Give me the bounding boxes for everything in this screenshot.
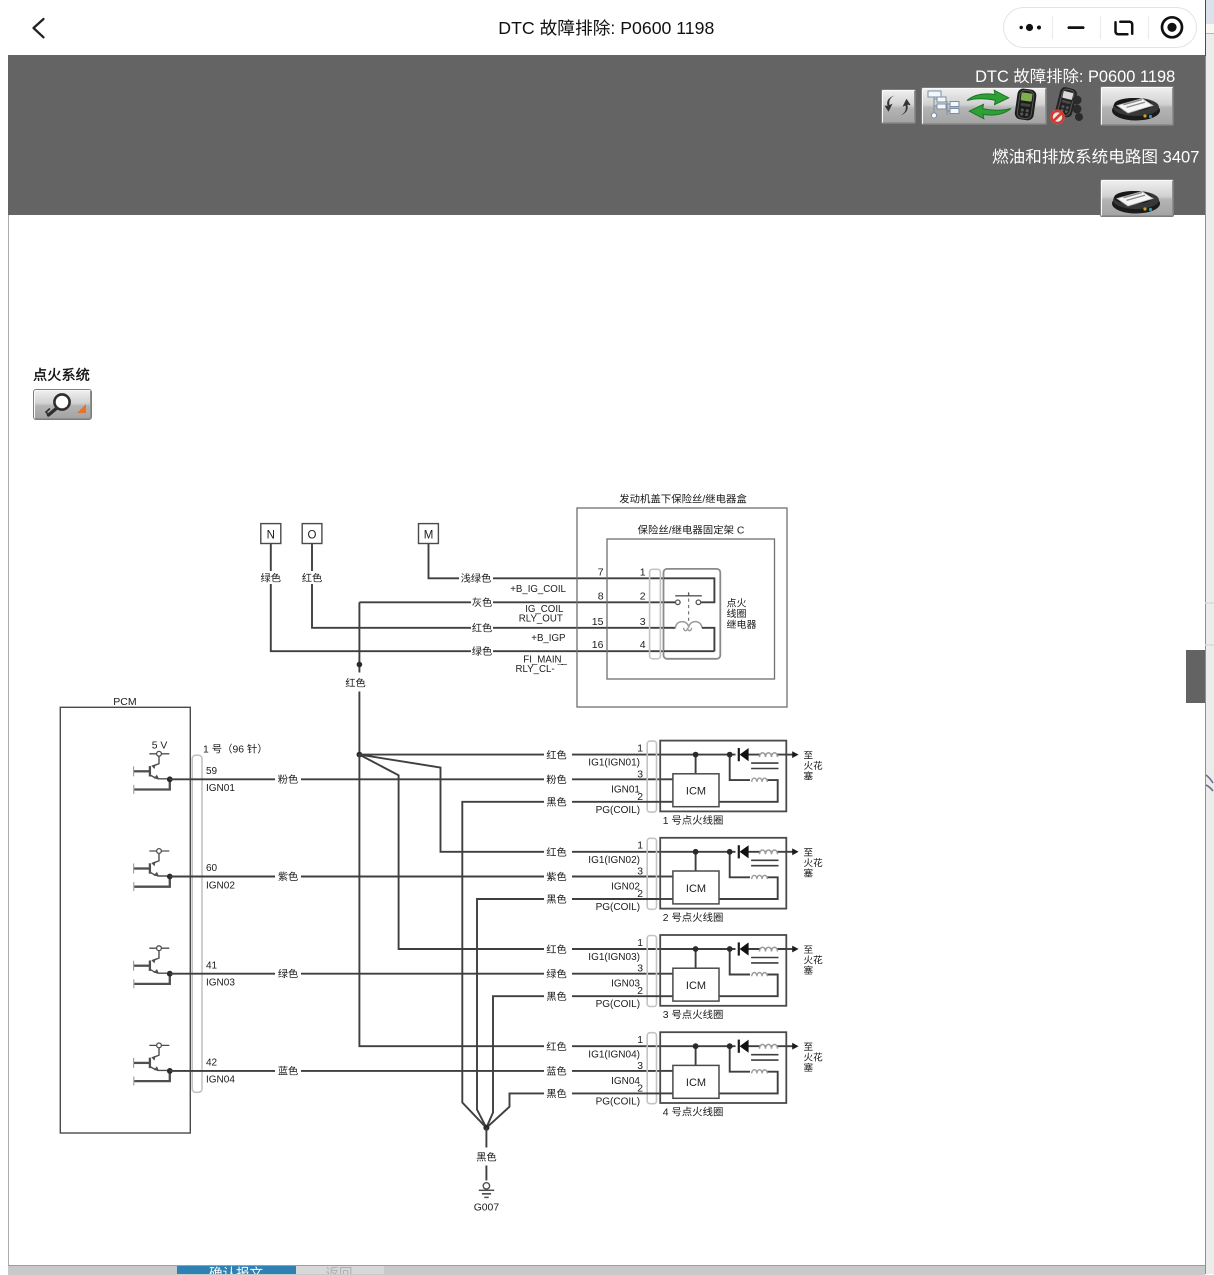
svg-text:IGN01: IGN01 — [611, 784, 640, 795]
svg-text:15: 15 — [592, 616, 604, 628]
svg-text:IG1(IGN03): IG1(IGN03) — [588, 952, 640, 963]
fuse/relay holder C box — [607, 525, 775, 679]
wire: gray IG_COIL_RLY_OUT horizontal — [359, 601, 664, 603]
coil 1 pin 1 / IG1(IGN01) — [588, 744, 643, 769]
svg-text:5 V: 5 V — [152, 740, 168, 751]
svg-text:DTC: DTC — [498, 18, 535, 38]
svg-text:PCM: PCM — [113, 696, 136, 708]
svg-text:PG(COIL): PG(COIL) — [596, 902, 640, 913]
node: red wire fan junction — [357, 752, 363, 758]
coil 4 internal wiring — [661, 1046, 786, 1093]
label 绿色 coil 3 — [547, 969, 567, 978]
svg-text:IG1(IGN04): IG1(IGN04) — [588, 1049, 640, 1060]
label 黑色 coil 4 — [547, 1089, 566, 1098]
section label 点火系统 — [34, 368, 90, 381]
arrow to spark plug 2 — [786, 851, 792, 853]
wire: 紫色 signal IGN02 from PCM to coil 2 pin 3 — [170, 876, 661, 878]
label 黑色 coil 3 — [547, 991, 566, 1000]
toolbar button: print (top) — [1100, 86, 1174, 126]
flowchart icon — [928, 91, 959, 118]
connector O — [302, 524, 322, 544]
svg-text:1: 1 — [203, 745, 209, 756]
icon: scan tool disabled — [1049, 87, 1089, 126]
coil 3 connector bracket — [647, 936, 656, 1007]
wire: red branch to coil 1 pin 1 — [359, 754, 661, 756]
wire: connector N lead (green) — [271, 544, 471, 652]
toolbar button group: schematic / swap / scan tool — [921, 87, 1047, 125]
transformer core — [751, 860, 778, 865]
svg-text:3: 3 — [640, 616, 646, 628]
zoom button — [33, 389, 92, 420]
coil 4 pin 1 / IG1(IGN04) — [588, 1035, 643, 1060]
svg-text:ICM: ICM — [686, 1077, 706, 1089]
svg-text:3: 3 — [637, 1061, 643, 1072]
svg-text:/: / — [702, 495, 705, 506]
svg-text:4: 4 — [640, 639, 646, 651]
ignition coil 1 box — [660, 741, 786, 812]
window title text — [498, 18, 714, 38]
ICM U2 — [673, 871, 719, 904]
coil 3 internal wiring — [661, 949, 786, 996]
coil 1 pin 2 / PG(COIL) — [596, 792, 644, 816]
label 绿色 (N wire colour) — [261, 573, 281, 582]
transformer core — [751, 958, 778, 963]
node: emitter junction dot Q4 — [167, 1068, 173, 1074]
node: coil 2 dot A — [693, 849, 699, 855]
svg-text:G007: G007 — [474, 1202, 500, 1213]
coil 2 pin 2 / PG(COIL) — [596, 889, 644, 913]
svg-text:IGN03: IGN03 — [611, 979, 640, 990]
wire: 绿色 signal IGN03 from PCM to coil 3 pin 3 — [170, 973, 661, 975]
svg-text:IGN01: IGN01 — [206, 783, 235, 794]
wire: red vertical from relay to coil fan — [358, 602, 360, 754]
coil 2 connector bracket — [647, 838, 656, 909]
diode D2 — [738, 845, 740, 858]
label 红色 coil 2 — [547, 847, 567, 856]
label 红色 +B_IGP — [472, 623, 565, 644]
bottom bar button text 确认报文 — [209, 1266, 262, 1275]
svg-text:IGN04: IGN04 — [611, 1076, 640, 1087]
content area left border — [8, 215, 9, 1266]
secondary winding L1b — [752, 778, 768, 782]
svg-text:1: 1 — [663, 816, 669, 827]
svg-text:+B_IGP: +B_IGP — [531, 633, 565, 644]
arrow to spark plug 3 — [786, 948, 792, 950]
green swap arrows — [967, 90, 1011, 118]
label 至火花塞 2 — [804, 848, 822, 877]
pin 15 — [592, 616, 604, 628]
label 至火花塞 4 — [804, 1043, 822, 1072]
node: coil 1 dot B — [727, 752, 733, 758]
ICM U4 — [673, 1065, 719, 1098]
right background-window strip — [1205, 0, 1214, 24]
coil 2 pin 1 / IG1(IGN02) — [588, 841, 643, 866]
secondary winding L4b — [752, 1070, 768, 1074]
coil 1 connector bracket — [647, 741, 656, 812]
toolbar button: data refresh — [881, 89, 916, 124]
transformer core — [751, 763, 778, 768]
svg-text:4: 4 — [663, 1107, 669, 1118]
wire: black ground coil 1 — [462, 802, 661, 1128]
svg-text:1: 1 — [637, 938, 643, 949]
junction splice dot on red vertical — [357, 662, 363, 668]
label 红色 coil 3 — [547, 944, 567, 953]
label 绿色 FI_MAIN_RLY_CL- — [472, 646, 567, 675]
svg-text:: P0600 1198: : P0600 1198 — [1079, 68, 1175, 86]
label 紫色 coil 2 — [547, 872, 567, 881]
node: coil 1 dot A — [693, 752, 699, 758]
hand-held scan tool — [1014, 88, 1037, 121]
svg-text:3: 3 — [637, 769, 643, 780]
wire: black ground coil 3 — [486, 996, 661, 1128]
svg-text:3: 3 — [663, 1010, 669, 1021]
node: coil 2 dot B — [727, 849, 733, 855]
wire segments row1/row3/row4 into relay — [493, 578, 664, 651]
svg-text:3: 3 — [637, 867, 643, 878]
label 1 号点火线圈 — [663, 815, 723, 827]
label 红色 coil 1 — [547, 750, 567, 759]
wire: black ground coil 2 — [477, 899, 661, 1128]
primary winding L3a — [760, 947, 778, 951]
svg-text:ICM: ICM — [686, 883, 706, 895]
svg-text:IGN02: IGN02 — [206, 880, 235, 891]
svg-text:IGN04: IGN04 — [206, 1075, 235, 1086]
band heading DTC — [975, 68, 1175, 86]
coil 1 pin 3 / IGN01 — [611, 769, 643, 795]
svg-text:PG(COIL): PG(COIL) — [596, 999, 640, 1010]
svg-text:: P0600 1198: : P0600 1198 — [610, 18, 714, 38]
node: coil 3 dot B — [727, 946, 733, 952]
scrollbar thumb — [1186, 650, 1205, 703]
pin 16 — [592, 639, 604, 651]
label 2 号点火线圈 — [663, 912, 723, 924]
wire: red branch to coil 3 pin 1 — [359, 755, 661, 949]
node: coil 4 dot A — [693, 1043, 699, 1049]
svg-text:RLY_OUT: RLY_OUT — [519, 614, 563, 625]
coil 1 internal wiring — [661, 755, 786, 802]
label 黑色 coil 1 — [547, 797, 566, 806]
label 绿色 (near PCM) — [278, 969, 298, 978]
coil 4 pin 2 / PG(COIL) — [596, 1083, 644, 1107]
pin 3 (relay) — [640, 616, 646, 628]
arrow to spark plug 4 — [786, 1045, 792, 1047]
svg-text:ICM: ICM — [686, 786, 706, 798]
bottom bar button text 返回 — [326, 1267, 351, 1275]
bottom gray button 返回 — [296, 1266, 384, 1274]
label 至火花塞 3 — [804, 945, 822, 974]
svg-text:PG(COIL): PG(COIL) — [596, 1096, 640, 1107]
PCM connector bracket 1号(96针) — [192, 744, 260, 1093]
label 黑色 (ground wire) — [477, 1152, 496, 1161]
svg-text:8: 8 — [598, 590, 604, 602]
coil 2 pin 3 / IGN02 — [611, 867, 643, 893]
ground G007 — [479, 1183, 494, 1198]
connector M — [419, 524, 439, 544]
node: coil 4 dot B — [727, 1043, 733, 1049]
record/close icon — [1162, 17, 1182, 37]
label 至火花塞 1 — [804, 751, 822, 780]
coil 4 connector bracket — [647, 1033, 656, 1104]
ignition coil 4 box — [660, 1032, 786, 1103]
label G007 — [474, 1202, 500, 1213]
svg-text:42: 42 — [206, 1058, 218, 1069]
wire: common black to ground — [485, 1128, 487, 1181]
svg-text:DTC: DTC — [975, 68, 1009, 86]
diode D3 — [738, 942, 740, 955]
minimize icon — [1068, 26, 1085, 29]
coil 3 pin 3 / IGN03 — [611, 964, 643, 990]
ICM U3 — [673, 968, 719, 1001]
svg-text:41: 41 — [206, 960, 218, 971]
svg-text:C: C — [737, 526, 745, 537]
label 3 号点火线圈 — [663, 1009, 723, 1021]
ignition coil 3 box — [660, 935, 786, 1006]
svg-text:N: N — [267, 530, 275, 542]
label 5 V — [152, 740, 168, 751]
svg-text:/: / — [669, 526, 672, 537]
wire: red branch to coil 2 pin 1 — [359, 755, 661, 852]
PCM pin 59 / IGN01 — [206, 766, 235, 794]
bottom blue button 确认报文 — [177, 1266, 296, 1274]
svg-text:60: 60 — [206, 863, 218, 874]
secondary winding L2b — [752, 875, 768, 879]
label 灰色 IG_COIL RLY_OUT — [472, 597, 564, 624]
primary winding L4a — [760, 1044, 778, 1048]
label 蓝色 (near PCM) — [278, 1066, 298, 1075]
svg-text:1: 1 — [637, 841, 643, 852]
relay connector strip — [650, 569, 661, 659]
svg-text:PG(COIL): PG(COIL) — [596, 805, 640, 816]
more (three dots) icon — [1020, 26, 1023, 29]
transistor Q1 (PCM driver IGN01) — [134, 751, 170, 794]
svg-text:16: 16 — [592, 639, 604, 651]
label 黑色 coil 2 — [547, 894, 566, 903]
coil 4 pin 3 / IGN04 — [611, 1061, 643, 1087]
label 蓝色 coil 4 — [547, 1066, 567, 1075]
pin 8 — [598, 590, 604, 602]
label 4 号点火线圈 — [663, 1107, 723, 1119]
toolbar button: print (lower) — [1100, 179, 1174, 217]
arrow to spark plug 1 — [786, 754, 792, 756]
gray header band — [8, 55, 1205, 215]
pin 2 (relay) — [640, 590, 646, 602]
capsule dividers — [1053, 16, 1149, 39]
label 浅绿色 +B_IG_COIL — [461, 573, 566, 595]
svg-text:59: 59 — [206, 766, 218, 777]
ignition coil 2 box — [660, 838, 786, 909]
PCM pin 41 / IGN03 — [206, 960, 235, 988]
restore window icon — [1116, 22, 1133, 34]
wire: connector M lead (light green) — [429, 544, 460, 579]
under-hood fuse/relay box — [577, 494, 787, 707]
node: emitter junction dot Q3 — [167, 971, 173, 977]
svg-text:1: 1 — [637, 1035, 643, 1046]
svg-text:1: 1 — [640, 566, 646, 578]
window title bar — [0, 0, 1205, 55]
svg-text:3: 3 — [637, 964, 643, 975]
PCM pin 60 / IGN02 — [206, 863, 235, 891]
svg-text:IGN02: IGN02 — [611, 882, 640, 893]
relay name 点火线圈继电器 — [727, 598, 756, 629]
band heading circuit 3407 — [993, 148, 1200, 167]
svg-text:+B_IG_COIL: +B_IG_COIL — [510, 584, 566, 595]
bottom action bar — [8, 1265, 1205, 1275]
pin 1 (relay) — [640, 566, 646, 578]
transistor Q3 (PCM driver IGN03) — [134, 946, 170, 989]
node: emitter junction dot Q1 — [167, 776, 173, 782]
connector N — [261, 524, 281, 544]
PCM pin 42 / IGN04 — [206, 1058, 235, 1086]
node: emitter junction dot Q2 — [167, 874, 173, 880]
diode D4 — [738, 1040, 740, 1053]
label 红色 (splice) — [346, 678, 366, 687]
svg-text:RLY_CL- ¯: RLY_CL- ¯ — [516, 664, 564, 675]
transistor Q2 (PCM driver IGN02) — [134, 849, 170, 892]
svg-text:3407: 3407 — [1163, 148, 1200, 167]
window controls capsule — [1003, 7, 1197, 48]
wire: black ground coil 4 — [486, 1093, 661, 1127]
diode D1 — [738, 748, 740, 761]
primary winding L2a — [760, 850, 778, 854]
svg-text:1: 1 — [637, 744, 643, 755]
svg-text:IGN03: IGN03 — [206, 978, 235, 989]
node: ground bundle junction — [483, 1125, 489, 1131]
ICM U1 — [673, 774, 719, 807]
svg-text:O: O — [308, 530, 317, 542]
pin 4 (relay) — [640, 639, 646, 651]
secondary winding L3b — [752, 973, 768, 977]
svg-text:M: M — [424, 530, 434, 542]
wire: red branch to coil 4 pin 1 — [359, 755, 661, 1047]
node: coil 3 dot A — [693, 946, 699, 952]
wire: 粉色 signal IGN01 from PCM to coil 1 pin 3 — [170, 778, 661, 780]
wire: connector O lead (red) — [312, 544, 471, 628]
coil 3 pin 2 / PG(COIL) — [596, 986, 644, 1010]
svg-text:2: 2 — [663, 913, 669, 924]
label 红色 coil 4 — [547, 1042, 567, 1051]
label 紫色 (near PCM) — [278, 872, 298, 881]
pin 7 — [598, 566, 604, 578]
svg-text:7: 7 — [598, 566, 604, 578]
svg-text:IG1(IGN01): IG1(IGN01) — [588, 758, 640, 769]
svg-text:ICM: ICM — [686, 980, 706, 992]
back chevron — [0, 0, 60, 55]
label 粉色 (near PCM) — [278, 774, 298, 783]
PCM box — [60, 696, 190, 1133]
wire: 蓝色 signal IGN04 from PCM to coil 4 pin 3 — [170, 1070, 661, 1072]
transformer core — [751, 1055, 778, 1060]
ignition coil relay U1 — [664, 569, 721, 659]
coil 3 pin 1 / IG1(IGN03) — [588, 938, 643, 963]
svg-text:96: 96 — [233, 745, 245, 756]
svg-text:IG1(IGN02): IG1(IGN02) — [588, 855, 640, 866]
label 红色 (O wire colour) — [302, 573, 322, 582]
svg-text:2: 2 — [640, 590, 646, 602]
label 粉色 coil 1 — [547, 775, 567, 784]
background window artifacts in right strip — [1205, 595, 1214, 825]
coil 2 internal wiring — [661, 852, 786, 899]
primary winding L1a — [760, 753, 778, 757]
transistor Q4 (PCM driver IGN04) — [134, 1043, 170, 1086]
